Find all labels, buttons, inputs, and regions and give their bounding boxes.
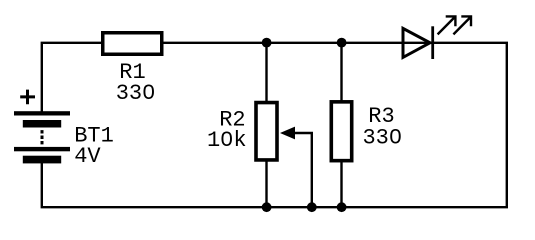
wire top rail from battery to R1 xyxy=(42,43,102,112)
value 330 (R1) zero glyph dot mask xyxy=(146,89,151,93)
svg-text:330: 330 xyxy=(362,125,402,150)
junction node bottom R2 xyxy=(262,202,272,212)
battery BT1 plate long bottom xyxy=(14,147,70,151)
value 10k zero glyph dot mask xyxy=(224,136,229,140)
value 330 (R3) zero glyph dot mask xyxy=(393,133,398,137)
LED D1 light arrow 2 xyxy=(453,16,471,34)
junction node bottom R3 xyxy=(337,202,347,212)
resistor R3 body xyxy=(331,102,351,161)
resistor R1 xyxy=(103,33,162,55)
potentiometer R2 body xyxy=(256,103,277,160)
wire R2 bottom xyxy=(265,162,267,208)
potentiometer R2 wiper arrow xyxy=(280,127,295,140)
wire R3 bottom xyxy=(340,162,342,208)
battery BT1 plate short top xyxy=(23,120,61,128)
LED D1 cathode bar xyxy=(431,26,434,59)
wire bottom rail xyxy=(42,163,508,208)
junction node top R2 xyxy=(262,38,272,48)
battery BT1 plus sign xyxy=(20,90,35,105)
battery BT1 plate short bottom xyxy=(23,156,61,164)
LED D1 triangle xyxy=(403,28,430,57)
battery BT1 dashed link xyxy=(41,130,44,144)
svg-text:10k: 10k xyxy=(207,128,247,153)
junction node bottom wiper xyxy=(307,202,317,212)
wire R2 wiper to bottom rail xyxy=(294,133,312,207)
junction node top R3 xyxy=(337,38,347,48)
wire top rail from R1 through LED to right corner and down xyxy=(163,43,507,207)
wire R3 top xyxy=(340,43,342,102)
wire R2 top xyxy=(265,43,267,102)
battery BT1 plate long top xyxy=(14,111,70,115)
svg-text:4V: 4V xyxy=(74,144,101,169)
LED D1 light arrow 1 xyxy=(438,16,456,34)
